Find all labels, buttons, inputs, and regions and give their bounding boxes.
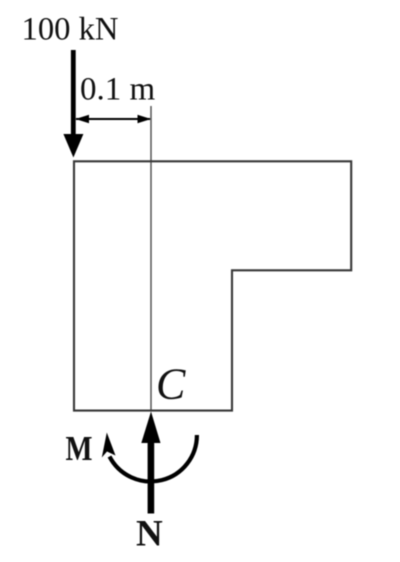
dimension arrowhead left [76,115,90,123]
normal force N shaft [148,440,155,514]
force arrow P shaft [71,50,76,139]
normal force N head [141,412,160,444]
svg-text:M: M [66,430,93,468]
svg-text:100 kN: 100 kN [22,12,119,48]
svg-text:N: N [136,514,163,555]
svg-text:0.1 m: 0.1 m [80,72,156,108]
moment arc arrowhead [102,433,116,458]
centroid axis line [150,106,152,411]
dimension line [76,118,150,120]
moment arc M [110,435,197,481]
force arrow P head [63,134,83,158]
svg-text:C: C [156,360,186,409]
dimension arrowhead right [138,115,152,123]
cross-section outline [74,161,351,410]
